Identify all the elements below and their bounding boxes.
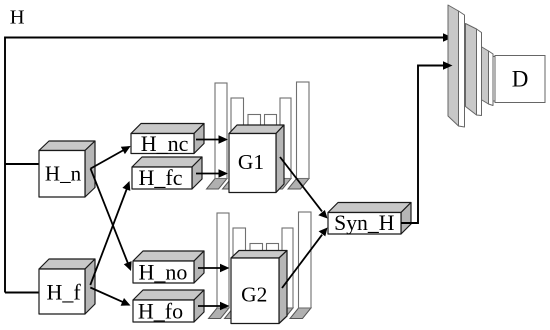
node H_no box xyxy=(133,251,204,283)
node H_fo box xyxy=(133,290,204,322)
discriminator slab 2 xyxy=(466,24,482,116)
generator G2 box xyxy=(231,251,287,324)
generator G1 box xyxy=(229,125,284,193)
node H_fc box xyxy=(132,157,202,189)
svg-text:D: D xyxy=(512,67,529,92)
histogram bars G1 group xyxy=(215,82,309,179)
wire H_f to H_fc xyxy=(90,187,127,285)
discriminator slab 3 xyxy=(481,47,493,106)
bar feet G1 group xyxy=(207,179,310,190)
node H_nc box xyxy=(131,124,204,154)
wire H_fo to G2 xyxy=(198,305,222,307)
discriminator slab 1 xyxy=(448,5,465,127)
svg-text:G1: G1 xyxy=(238,150,264,174)
node H_n box xyxy=(39,141,95,197)
bar feet G2 group xyxy=(209,308,312,319)
wire H top line xyxy=(5,38,444,293)
svg-text:H_f: H_f xyxy=(46,280,81,305)
arrowhead H line into D slab xyxy=(443,33,453,41)
svg-text:H_nc: H_nc xyxy=(141,131,189,156)
histogram bars G2 group xyxy=(217,212,311,308)
svg-text:H_n: H_n xyxy=(45,162,82,186)
svg-text:Syn_H: Syn_H xyxy=(334,211,395,235)
svg-text:G2: G2 xyxy=(241,283,267,307)
wire stub to H_n xyxy=(5,163,39,165)
svg-text:H_fc: H_fc xyxy=(139,165,183,190)
wire stub to H_f xyxy=(5,292,39,294)
wire H_no to G2 xyxy=(198,267,222,269)
wire Syn_H to D slab xyxy=(401,66,444,224)
svg-text:H: H xyxy=(10,7,25,29)
wire H_n to H_nc xyxy=(91,150,124,169)
wire H_fc to G1 xyxy=(196,173,220,175)
discriminator D input layer xyxy=(488,57,496,102)
arrowhead Syn_H line into D slab xyxy=(443,61,453,69)
svg-text:H_no: H_no xyxy=(139,260,188,285)
wire H_n to H_no xyxy=(91,169,129,264)
wire G2 to Syn_H xyxy=(282,235,322,288)
wire H_f to H_fo xyxy=(90,288,123,303)
node H_f box xyxy=(39,259,95,314)
node Syn_H box xyxy=(328,203,411,235)
wire H_nc to G1 xyxy=(196,139,220,141)
discriminator D box xyxy=(495,56,545,103)
wire G1 to Syn_H xyxy=(280,157,322,211)
svg-text:H_fo: H_fo xyxy=(138,299,183,324)
